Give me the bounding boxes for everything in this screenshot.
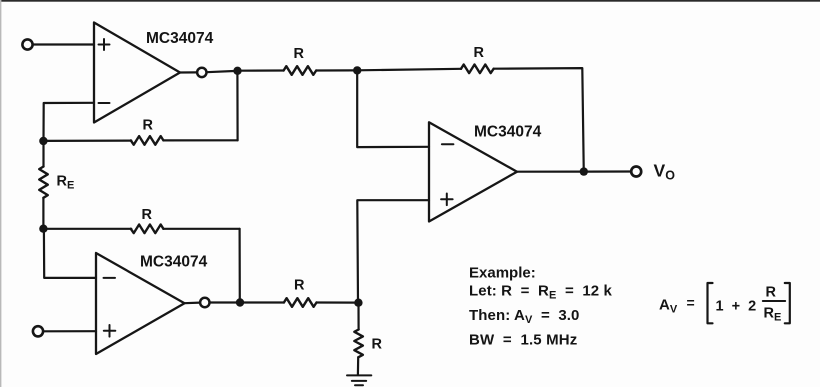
wire N1 to resistor R1 <box>238 69 284 71</box>
output terminal VO <box>631 167 641 177</box>
svg-text:R: R <box>142 207 153 223</box>
node N5 (U3 output junction) <box>580 167 588 175</box>
wire R4 to node N4 <box>48 228 132 230</box>
wire U3 apex to node N5 <box>517 171 580 173</box>
resistor R4 <box>131 225 164 234</box>
wire R2 to feedback corner <box>494 68 584 167</box>
wire N1 down to U1 feedback resistor <box>236 71 238 141</box>
wire N3 to gain resistor RE <box>42 141 44 167</box>
svg-text:MC34074: MC34074 <box>474 124 542 141</box>
wire R5 to node N7 <box>317 301 359 303</box>
svg-text:Then: AV = 3.0: Then: AV = 3.0 <box>469 307 580 326</box>
ground <box>347 375 371 385</box>
wire N6 to resistor R5 <box>244 301 284 303</box>
node N3 (U1 inverting junction) <box>39 137 47 145</box>
wire feedback row to resistor R3 <box>163 139 237 141</box>
resistor R1 <box>284 66 317 75</box>
U2 output bubble <box>200 298 209 307</box>
svg-text:1 + 2: 1 + 2 <box>716 299 757 315</box>
svg-text:Let: R = RE = 12 k: Let: R = RE = 12 k <box>469 283 612 302</box>
wire U1 bubble to node N1 <box>207 71 234 72</box>
wire RE to node N4 <box>42 198 44 229</box>
svg-text:R: R <box>766 285 777 301</box>
svg-text:MC34074: MC34074 <box>146 30 214 47</box>
svg-text:Example:: Example: <box>469 265 536 282</box>
wire N4 to U2 inverting input <box>44 229 96 278</box>
op-amp U1 <box>94 23 180 123</box>
input terminal IN2 <box>33 326 43 336</box>
resistor R2 <box>461 65 494 74</box>
wire N6 up to U2 feedback resistor <box>239 229 241 303</box>
wire N7 up to U3 noninverting input <box>357 200 429 303</box>
node N6 (U2 output junction) <box>236 298 244 306</box>
node N1 (U1 output junction) <box>233 67 241 75</box>
resistor R6 <box>354 330 363 358</box>
wire feedback row to resistor R4 <box>163 228 239 230</box>
svg-text:R: R <box>294 46 305 62</box>
node N2 (U3 inverting net junction) <box>353 66 361 74</box>
svg-text:R: R <box>143 117 154 133</box>
wire IN1 to U1 noninverting input <box>33 43 94 45</box>
resistor RE <box>39 167 48 198</box>
fraction bar of gain formula <box>763 300 785 302</box>
wire U1 inverting input to N3 <box>44 103 95 141</box>
svg-text:R: R <box>372 337 383 353</box>
wire U2 apex to output bubble <box>185 302 201 305</box>
U1 output bubble <box>197 68 206 77</box>
node N4 (U2 inverting junction) <box>39 225 47 233</box>
node N7 (U3 noninverting junction) <box>354 299 362 307</box>
wire IN2 to U2 noninverting input <box>43 330 96 332</box>
svg-text:BW = 1.5 MHz: BW = 1.5 MHz <box>469 332 577 349</box>
right bracket of gain formula <box>785 283 790 323</box>
op-amp U2 <box>96 253 185 354</box>
svg-text:R: R <box>294 278 305 294</box>
op-amp U3 <box>429 122 517 221</box>
svg-text:R: R <box>474 45 485 61</box>
wire N5 to output terminal <box>588 170 631 172</box>
svg-text:MC34074: MC34074 <box>140 254 208 271</box>
wire R6 to ground <box>357 357 360 375</box>
svg-text:=: = <box>687 295 695 311</box>
resistor R3 <box>131 136 164 145</box>
input terminal IN1 <box>22 39 32 49</box>
wire N2 to resistor R2 <box>357 69 461 71</box>
wire R1 to node N2 <box>316 69 353 71</box>
wire R3 to node N3 <box>43 140 131 142</box>
wire N7 down to resistor R6 <box>357 303 359 330</box>
wire U1 apex to output bubble <box>180 71 197 73</box>
resistor R5 <box>284 298 317 307</box>
wire N2 down to U3 inverting input <box>357 70 429 147</box>
wire U2 bubble to node N6 <box>210 301 236 303</box>
left bracket of gain formula <box>708 283 713 323</box>
